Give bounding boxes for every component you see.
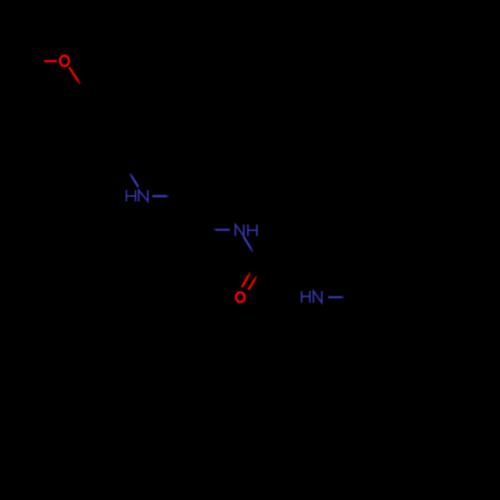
node N2: amide label NH (blue) <box>235 225 257 237</box>
wire: C=O double bond line 1 (red half) <box>242 272 250 287</box>
wire: bond CH3-O (methoxy methyl to oxygen, red half) <box>44 60 57 62</box>
wire: bond O-ring carbon (red half, fades) <box>69 67 80 84</box>
wire: bond CH2-N2 (blue half, fades left) <box>214 229 230 231</box>
wire: bond N1-CH2 (blue half, fades right) <box>152 195 168 197</box>
node N3: amine label HN (blue) <box>302 291 322 303</box>
wire: bond ring carbon-N (blue half, fades at top) <box>130 173 138 187</box>
node O1: methoxy oxygen atom label O (red) <box>60 56 69 66</box>
node O2: carbonyl oxygen atom label O (red) <box>236 292 245 302</box>
wire: bond N2-C carbonyl (blue half, fades down) <box>243 236 253 252</box>
wire: bond N3-CH2 (blue half, fades right) <box>328 296 344 298</box>
wire: C=O double bond line 2 (red half) <box>249 276 257 290</box>
node N1: amine label HN (blue) <box>126 190 147 201</box>
